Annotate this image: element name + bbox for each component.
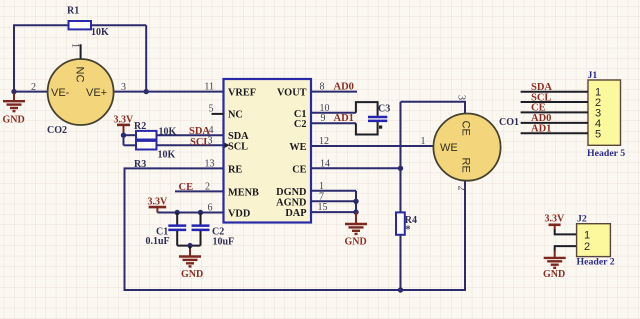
pin 1 stub (NC) of CO2 [80, 44, 82, 58]
svg-text:DAP: DAP [285, 208, 306, 219]
svg-text:3.3V: 3.3V [545, 214, 566, 225]
svg-text:2: 2 [205, 181, 210, 192]
svg-text:MENB: MENB [228, 187, 259, 198]
svg-text:10K: 10K [91, 27, 109, 38]
wire CE vertical down to R4 and up over WE [400, 102, 402, 213]
svg-text:10uF: 10uF [213, 236, 235, 247]
connector J2 header [577, 213, 615, 267]
svg-text:2: 2 [31, 82, 36, 93]
svg-text:1: 1 [421, 136, 426, 147]
resistor R2 [134, 121, 177, 140]
IC U1 analog front-end (VREF/SDA/SCL/VOUT etc.) [224, 79, 312, 223]
sensor CO1 (gas sensor electrode component) [433, 95, 519, 191]
svg-text:J1: J1 [588, 70, 598, 81]
svg-text:C2: C2 [294, 119, 307, 130]
wire RE pin13 loop: left, bottom, up to CO1 [125, 168, 466, 290]
capacitor C3 [356, 102, 390, 134]
svg-text:GND: GND [181, 269, 203, 280]
J1 pin 4 stub [521, 122, 588, 124]
svg-text:Header 2: Header 2 [577, 257, 615, 268]
node junction C1 top [175, 210, 180, 215]
svg-text:5: 5 [595, 128, 601, 140]
J1 pin 3 stub [521, 111, 588, 113]
svg-text:VE+: VE+ [86, 87, 107, 99]
svg-text:Header 5: Header 5 [587, 148, 625, 159]
svg-text:11: 11 [204, 82, 214, 93]
wire gnd vertical joining pins 1 7 15 [355, 191, 357, 212]
wire AGND pin7 stub [311, 200, 356, 202]
wire 3.3V to VDD pin6 [157, 212, 223, 214]
J1 pin 1 stub [521, 91, 588, 93]
wire C2 pin9 stub [311, 122, 356, 124]
resistor R4 [396, 212, 417, 290]
svg-text:VE-: VE- [51, 87, 70, 99]
svg-text:SCL: SCL [228, 141, 248, 152]
sensor CO2 (gas sensor electrode component) [31, 43, 126, 136]
ground GND symbol under IC [345, 212, 368, 248]
svg-text:NC: NC [228, 110, 243, 121]
svg-text:C3: C3 [378, 103, 390, 114]
node junction 3.3V / R2 / R3 [121, 133, 126, 138]
svg-text:AD1: AD1 [334, 113, 354, 124]
node junction AGND [353, 199, 358, 204]
wire R2 to SDA pin4 [157, 134, 224, 136]
ground GND symbol at J2 [543, 251, 566, 281]
svg-text:CE: CE [460, 121, 472, 136]
svg-text:GND: GND [543, 269, 565, 280]
svg-text:GND: GND [345, 237, 367, 248]
wire DAP pin15 stub [311, 211, 356, 213]
svg-text:10K: 10K [158, 149, 176, 160]
svg-text:RE: RE [460, 158, 472, 173]
svg-text:SDA: SDA [228, 131, 249, 142]
svg-text:GND: GND [3, 114, 25, 125]
wire R1 top left segment [13, 24, 69, 26]
wire J2 pin2 to GND [555, 246, 577, 251]
svg-text:3: 3 [121, 82, 126, 93]
svg-text:3: 3 [456, 95, 467, 100]
wire VOUT pin8 stub [311, 91, 357, 93]
svg-text:RE: RE [228, 164, 242, 175]
node junction VE+ / R1 [144, 89, 149, 94]
wire CE pin14 to vertical [311, 167, 401, 169]
pin 5 NC stub [212, 113, 224, 115]
svg-text:1: 1 [70, 43, 81, 48]
node junction at caps bottom [187, 243, 192, 248]
wire to R3 left [124, 144, 137, 146]
svg-text:CO2: CO2 [47, 125, 67, 136]
svg-text:*: * [406, 225, 411, 236]
node junction C2 top [198, 210, 203, 215]
wire VE+ pin3 to IC VREF pin11 [114, 91, 224, 93]
wire WE pin12 to CO1 [311, 145, 434, 147]
svg-text:WE: WE [289, 142, 306, 153]
ground GND symbol under caps [179, 246, 203, 280]
svg-text:0.1uF: 0.1uF [146, 236, 170, 247]
wire VE- pin2 to GND node [14, 91, 48, 93]
svg-text:VOUT: VOUT [277, 88, 307, 99]
power 3.3V port at VDD [148, 197, 169, 213]
wire joining C1 C2 bottoms [177, 245, 200, 247]
svg-text:CE: CE [292, 164, 306, 175]
svg-text:2: 2 [456, 186, 467, 191]
wire right vertical from R1 to VE+ node [145, 25, 147, 91]
svg-text:AD1: AD1 [531, 124, 551, 135]
power 3.3V port at J2 [545, 214, 566, 231]
connector J1 header [521, 70, 626, 159]
wire R3 to SCL pin3 [157, 144, 224, 146]
svg-text:13: 13 [205, 158, 215, 169]
wire 3.3V to R2 [124, 134, 137, 136]
node junction at GND / VE- [11, 89, 16, 94]
svg-text:AGND: AGND [276, 197, 306, 208]
svg-text:6: 6 [208, 203, 213, 214]
svg-text:AD0: AD0 [531, 113, 551, 124]
ground GND symbol at CO2 [3, 93, 26, 126]
svg-text:J2: J2 [577, 213, 587, 224]
svg-text:C1: C1 [294, 109, 307, 120]
svg-text:VDD: VDD [228, 209, 250, 220]
SCL clock arrow [225, 143, 230, 148]
svg-text:3: 3 [208, 135, 213, 146]
svg-text:NC: NC [74, 67, 86, 83]
wire MENB pin2 stub [175, 190, 224, 192]
svg-text:VREF: VREF [228, 88, 256, 99]
capacitor C1 [146, 213, 187, 248]
svg-text:DGND: DGND [276, 187, 306, 198]
node junction CE vertical [398, 166, 403, 171]
svg-text:CO1: CO1 [499, 117, 519, 128]
svg-text:1: 1 [584, 229, 590, 241]
J1 pin 5 stub [521, 132, 588, 134]
wire CE top route to CO1 pin3 [401, 102, 466, 114]
resistor R1 [67, 5, 109, 38]
svg-text:R1: R1 [67, 5, 79, 16]
wire down to R3 [123, 135, 125, 145]
svg-text:AD0: AD0 [334, 81, 354, 92]
wire DGND pin1 stub [311, 190, 356, 192]
wire 3.3V to J2 pin1 [555, 230, 577, 235]
wire left vertical from R1 to VE- node [13, 25, 15, 91]
power 3.3V port at R2 [114, 114, 135, 135]
svg-text:2: 2 [584, 241, 590, 253]
svg-text:SCL: SCL [531, 92, 551, 103]
svg-text:CE: CE [531, 103, 546, 114]
J1 pin 2 stub [521, 101, 588, 103]
wire R1 top right segment [91, 24, 146, 26]
svg-text:CE: CE [179, 182, 194, 193]
node junction DAP [353, 209, 358, 214]
resistor R3 [134, 141, 176, 170]
svg-text:WE: WE [440, 142, 458, 154]
svg-text:R2: R2 [134, 121, 146, 132]
node junction R4 bottom [398, 287, 403, 292]
capacitor C2 [192, 213, 235, 248]
wire C1 pin10 stub [311, 112, 356, 114]
